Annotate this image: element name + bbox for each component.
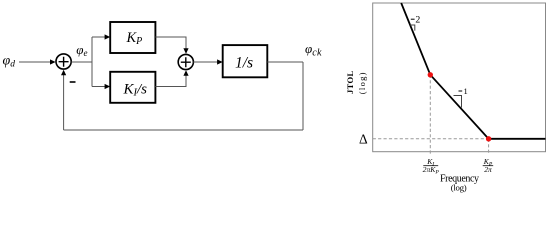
wire KI output to summer S2: [155, 75, 186, 87]
wire feedback bottom horizontal: [64, 129, 303, 131]
svg-text:(log): (log): [451, 183, 467, 193]
breakpoint dot 2: [486, 136, 491, 141]
svg-text:Δ: Δ: [359, 132, 368, 147]
arrowhead into S1 bottom: [61, 70, 66, 76]
arrowhead into integrator block: [217, 59, 223, 64]
wire KP output to summer S2: [155, 37, 186, 49]
arrowhead into KP block: [105, 34, 111, 39]
arrowhead into S2 top: [183, 48, 188, 54]
wire input to summer S1: [19, 61, 52, 63]
dashed guide vertical at KI/2piKP: [429, 75, 431, 155]
label -2: [411, 18, 415, 20]
wire S2 to integrator block: [193, 61, 219, 63]
svg-text:1: 1: [464, 86, 468, 96]
breakpoint dot 1: [428, 72, 433, 77]
plot frame: [373, 3, 546, 152]
label -1: [459, 90, 463, 92]
x tick label KP/(2pi) fraction: [483, 157, 494, 174]
dashed guide horizontal at Delta: [373, 138, 489, 140]
arrowhead into S2 bottom: [183, 70, 188, 76]
summing junction S2: [178, 54, 193, 69]
slope marker -1: [454, 96, 462, 108]
wire S1 to branch node: [71, 61, 92, 63]
minus sign at feedback input of S1: [70, 81, 76, 83]
slope marker -2: [410, 25, 415, 31]
summing junction S1: [56, 54, 71, 69]
wire branch vertical: [91, 37, 93, 87]
svg-text:1/s: 1/s: [235, 54, 253, 71]
svg-text:(log): (log): [357, 71, 367, 94]
dashed guide vertical at KP/2pi: [488, 139, 490, 155]
x tick label KI/(2piKP) fraction: [423, 157, 440, 175]
wire feedback left vertical to S1: [63, 74, 65, 130]
block KP (proportional gain): [110, 22, 155, 53]
block 1/s (integrator): [223, 45, 268, 77]
arrowhead into KI block: [105, 84, 111, 89]
plus sign in S1: [59, 57, 69, 67]
arrowhead into summer S1: [50, 59, 56, 64]
wire branch to KP block: [92, 36, 106, 38]
wire branch to KI block: [92, 86, 106, 88]
svg-text:JTOL: JTOL: [345, 70, 355, 94]
block KI/s (integral gain): [110, 72, 155, 103]
JTOL curve: [401, 3, 545, 139]
plus sign in S2: [181, 57, 191, 67]
svg-text:2: 2: [415, 15, 420, 26]
svg-text:2π: 2π: [484, 165, 492, 174]
wire integrator output: [267, 61, 303, 63]
wire feedback right vertical: [302, 62, 304, 130]
